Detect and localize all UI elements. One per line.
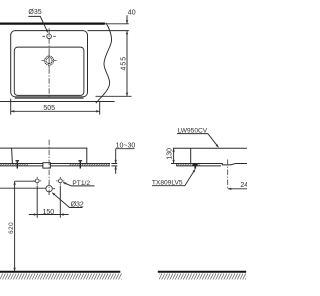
basin front edge (side): [190, 148, 192, 163]
side top line: [173, 147, 247, 149]
dimension 620: [14, 181, 16, 271]
fixing bolt left: [16, 160, 20, 161]
dimension 40 (vertical, wall to sink back): [126, 15, 128, 24]
wall line (thick): [0, 23, 105, 25]
inner basin (rounded rect): [14, 47, 84, 95]
drain outlet circle Ø32: [46, 186, 52, 192]
counter hatching: [0, 164, 28, 166]
svg-text:505: 505: [43, 105, 55, 112]
sink base shadow line: [15, 97, 84, 99]
drain tailpiece rect: [43, 163, 51, 168]
floor line right: [158, 271, 246, 273]
dimension 130: [171, 163, 178, 165]
dimension 505 (horizontal, bottom of plan): [11, 99, 100, 115]
faucet hole: [47, 34, 52, 39]
svg-text:Ø35: Ø35: [28, 9, 41, 16]
drain level line: [0, 187, 46, 189]
floor line left: [0, 271, 120, 273]
dimension 240 (cut off): [228, 188, 247, 190]
drain hole (double dashed circle): [45, 56, 54, 65]
svg-text:620: 620: [8, 222, 15, 234]
svg-text:40: 40: [128, 10, 136, 17]
counter band top with drain recess: [177, 164, 247, 165]
basin rim line: [0, 147, 87, 149]
basin right edge: [86, 148, 88, 163]
wall line thin extension: [105, 23, 129, 25]
side centerline (drain, dash-dot): [227, 160, 229, 189]
fixing bolt (side): [193, 164, 198, 166]
counter section band: [0, 163, 110, 165]
sink top edge extension to dimension: [88, 30, 129, 32]
svg-text:455: 455: [120, 56, 127, 71]
basin left edge: [11, 148, 14, 163]
620 top extension line: [15, 180, 35, 182]
455 bottom extension line: [96, 95, 132, 97]
break line (wavy): [96, 23, 112, 103]
counter hatching (side): [177, 164, 200, 166]
dimension 455 (vertical): [126, 31, 128, 97]
svg-text:150: 150: [42, 209, 54, 216]
counter band bottom: [177, 164, 221, 166]
supply circle left: [35, 179, 39, 183]
plan centerline (vertical dash-dot): [48, 28, 50, 97]
front centerline (vertical dash-dot): [48, 140, 50, 197]
svg-text:240: 240: [240, 182, 247, 189]
supply circle right: [58, 179, 62, 183]
fixing bolt right: [79, 160, 83, 161]
svg-text:130: 130: [166, 148, 173, 160]
label leader Ø35: [28, 16, 47, 31]
sink outer rim (rounded rect): [11, 31, 88, 97]
counter front edge line: [0, 101, 115, 103]
dimension 150: [37, 186, 60, 218]
